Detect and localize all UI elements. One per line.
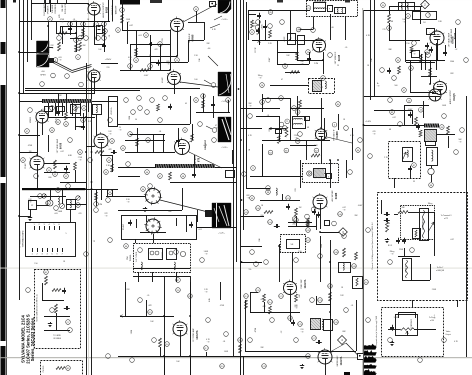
- tube V16 6AU8 bottom: [173, 320, 188, 336]
- value label 39: [209, 297, 211, 302]
- svg-text:330: 330: [300, 61, 303, 63]
- inset callout: [66, 320, 71, 325]
- svg-text:100K: 100K: [442, 105, 447, 107]
- bottom edge tick: [344, 372, 350, 375]
- dashed alignment box: [389, 142, 421, 179]
- svg-text:6T8: 6T8: [198, 157, 201, 162]
- IF terminal board box: [26, 223, 76, 257]
- capacitor: [408, 112, 412, 118]
- wire: [316, 304, 330, 306]
- tube label: [335, 51, 341, 65]
- svg-text:6AU8: 6AU8: [338, 54, 341, 61]
- value label 2: [109, 35, 111, 38]
- wire long right: [363, 10, 365, 375]
- svg-text:→5-26←: →5-26←: [220, 147, 228, 149]
- svg-text:220: 220: [300, 329, 303, 331]
- callout: [250, 196, 255, 201]
- svg-text:of 6BQ7A: of 6BQ7A: [436, 269, 445, 272]
- callout: [56, 188, 61, 193]
- svg-text:.001: .001: [138, 35, 142, 37]
- second dashed box bottom left: [41, 361, 83, 375]
- callout: [25, 129, 30, 134]
- value label 42: [223, 341, 226, 343]
- wire: [330, 300, 332, 316]
- flat box: [413, 12, 437, 20]
- svg-text:47: 47: [215, 125, 217, 127]
- dashed box small: [281, 235, 306, 253]
- svg-text:200: 200: [293, 224, 296, 226]
- small comp column: [416, 124, 422, 137]
- svg-text:470K: 470K: [220, 305, 225, 307]
- callout: [311, 28, 333, 58]
- callout: [381, 3, 386, 8]
- capacitor: [102, 43, 106, 49]
- bottom box label: [375, 316, 378, 346]
- inset wire: [44, 313, 70, 331]
- binding bar segment: [1, 183, 6, 341]
- callout: [238, 338, 243, 343]
- callout: [364, 280, 369, 285]
- fold line vertical: [361, 8, 364, 375]
- yoke photo blob: [218, 117, 231, 142]
- svg-text:LL2: LL2: [42, 109, 45, 111]
- pictorial lead: [49, 48, 53, 61]
- crt connector: [206, 211, 212, 217]
- value label 4: [149, 55, 152, 57]
- inset2 comp: [56, 366, 70, 371]
- svg-text:1M: 1M: [29, 151, 32, 153]
- callout: [81, 22, 86, 27]
- inset arrow: [428, 222, 434, 232]
- callout: [94, 202, 99, 207]
- trimmer caps row: [42, 194, 80, 200]
- resistor: [429, 68, 432, 76]
- label 265V: [262, 24, 264, 30]
- value label 44: [261, 205, 264, 207]
- callout: [47, 168, 52, 173]
- wire: [125, 152, 175, 154]
- wire: [330, 240, 332, 282]
- wire top link: [412, 300, 414, 307]
- inset resistor: [52, 289, 61, 292]
- callout: [412, 41, 431, 58]
- svg-text:470: 470: [78, 213, 81, 215]
- wire: [292, 252, 294, 282]
- label 200: [293, 224, 296, 226]
- inset pot label2: [406, 264, 408, 272]
- inner label: [429, 317, 435, 322]
- sound output dashed box: [303, 164, 339, 183]
- wire: [300, 17, 314, 30]
- label col2: [65, 3, 67, 14]
- corner tick: [13, 0, 16, 3]
- inset2 label: [43, 365, 45, 372]
- wire: [410, 92, 434, 94]
- inset label small: [401, 207, 405, 209]
- svg-text:.01: .01: [159, 131, 162, 133]
- callout: [288, 316, 293, 321]
- wire: [101, 63, 118, 65]
- small box 2: [67, 200, 76, 210]
- bottom dashed box: [382, 308, 444, 357]
- wire: [405, 0, 407, 62]
- svg-text:4.5MC: 4.5MC: [162, 77, 164, 83]
- callout: [306, 238, 311, 243]
- wire double: [25, 89, 200, 91]
- pot small: [353, 277, 363, 289]
- svg-text:6AM8: 6AM8: [335, 131, 339, 139]
- tube V11 2nd video 6T8: [174, 138, 190, 155]
- callout: [204, 346, 209, 351]
- model text line2: [25, 314, 30, 364]
- value label 43: [299, 294, 301, 298]
- svg-text:VERT LIN: VERT LIN: [406, 264, 408, 272]
- svg-text:OF 6BE6: OF 6BE6: [53, 338, 61, 340]
- small box SPKR: [327, 174, 332, 179]
- svg-text:100K: 100K: [224, 351, 229, 353]
- callout: [53, 172, 58, 177]
- wire: [260, 194, 300, 201]
- callout: [176, 288, 181, 293]
- value label 26: [314, 145, 318, 147]
- small box: [324, 320, 333, 331]
- small boxes under coil: [45, 107, 65, 112]
- value label 36: [340, 295, 344, 297]
- svg-text:150K: 150K: [126, 19, 131, 21]
- resistor: [398, 66, 401, 74]
- callout: [148, 64, 153, 69]
- callout: [64, 174, 69, 179]
- coil small: [276, 188, 277, 195]
- svg-text:of T2: of T2: [444, 218, 448, 220]
- callout: [158, 174, 163, 179]
- value label 16: [58, 95, 62, 97]
- label strip: [109, 97, 118, 127]
- tuner label: [136, 251, 138, 262]
- resistor: [245, 300, 248, 309]
- photo blob label: [220, 19, 228, 21]
- callout: [334, 250, 339, 255]
- tube label: [189, 32, 195, 42]
- wire: [241, 108, 280, 110]
- callout: [295, 110, 300, 115]
- svg-text:100K: 100K: [131, 329, 133, 334]
- wire: [125, 316, 174, 318]
- callout: [120, 8, 125, 13]
- wire bus: [86, 63, 88, 375]
- callout: [266, 186, 271, 191]
- capacitor: [291, 320, 295, 326]
- inset pot VOLUME: [420, 209, 429, 241]
- wire: [288, 208, 339, 250]
- tube V5 video IF 6AU8: [312, 37, 326, 52]
- resistor: [355, 252, 358, 260]
- callout: [165, 342, 170, 347]
- svg-text:05: 05: [185, 103, 187, 105]
- resistor: [343, 248, 346, 257]
- svg-text:820: 820: [166, 61, 169, 63]
- inset pot2: [413, 229, 421, 239]
- svg-text:470K: 470K: [28, 145, 33, 147]
- resistor grid: [103, 28, 106, 36]
- svg-text:470: 470: [372, 131, 375, 133]
- callout: [266, 190, 271, 195]
- resistor: [329, 292, 332, 301]
- wire: [19, 135, 40, 137]
- label 250V: [105, 59, 112, 61]
- wire: [406, 60, 437, 62]
- value label 10: [298, 29, 303, 31]
- callout: [107, 158, 112, 163]
- svg-text:PHONO: PHONO: [43, 365, 45, 372]
- resistor: [410, 46, 413, 53]
- diamond test2: [338, 336, 347, 345]
- wire: [177, 31, 179, 56]
- svg-text:47: 47: [55, 119, 57, 121]
- circle component: [428, 168, 434, 174]
- label col: [43, 3, 50, 15]
- align box R: [427, 148, 438, 166]
- callout: [306, 228, 311, 233]
- callout: [144, 33, 149, 38]
- resistor: [140, 69, 149, 72]
- svg-text:NC-3: NC-3: [388, 245, 392, 247]
- wire: [61, 26, 77, 34]
- label 46: [208, 48, 211, 50]
- tube label: [301, 278, 307, 288]
- wire: [19, 21, 110, 23]
- wire: [288, 222, 312, 224]
- wire: [277, 53, 323, 61]
- capacitor: [387, 68, 391, 74]
- wire diagonal: [327, 137, 352, 143]
- binding bar segment: [1, 85, 6, 177]
- arrow lead: [269, 127, 274, 130]
- wire: [270, 85, 308, 87]
- resistor: [420, 54, 423, 62]
- callout: [336, 102, 341, 107]
- svg-text:PHONO JACK: PHONO JACK: [43, 3, 46, 15]
- IF board pins bottom: [31, 248, 63, 256]
- resistor: [191, 134, 194, 142]
- svg-text:.05: .05: [147, 295, 150, 297]
- callout: [279, 294, 284, 299]
- callout: [298, 322, 303, 327]
- wire: [325, 364, 327, 375]
- wire bus: [31, 0, 33, 40]
- svg-text:68: 68: [391, 21, 393, 23]
- callout: [425, 50, 430, 55]
- wire: [250, 144, 302, 177]
- callout: [286, 196, 291, 201]
- wire: [250, 292, 258, 294]
- capacitor: [263, 24, 267, 30]
- svg-text:1Meg: 1Meg: [258, 75, 263, 77]
- blob leads: [208, 16, 222, 66]
- svg-text:150: 150: [406, 43, 409, 45]
- resistor: [111, 164, 114, 172]
- svg-text:560K: 560K: [58, 211, 63, 213]
- inner cap: [390, 325, 394, 331]
- small box: [93, 105, 102, 115]
- callout: [440, 125, 445, 130]
- tube label: [336, 355, 343, 367]
- resistor: [74, 162, 77, 170]
- callout: [292, 207, 316, 221]
- value label 18: [28, 145, 33, 147]
- label: [30, 116, 32, 123]
- svg-text:1W: 1W: [299, 207, 302, 209]
- inset cap: [62, 288, 66, 294]
- capacitor: [81, 124, 85, 130]
- fold line: [0, 357, 472, 358]
- tuner caps: [128, 220, 193, 228]
- callout: [124, 244, 129, 249]
- align box L: [403, 148, 413, 162]
- wire: [290, 10, 306, 12]
- callout: [256, 20, 285, 29]
- vertical label: [62, 3, 64, 11]
- callout: [46, 201, 51, 206]
- wire: [437, 45, 439, 60]
- resistor: [295, 208, 298, 216]
- tube V3 sound IF 6AW8 upper: [170, 17, 184, 32]
- right inset label: [371, 222, 374, 269]
- peaking coil row 2: [155, 164, 215, 168]
- callout: [226, 98, 231, 103]
- callout: [78, 150, 83, 155]
- callout: [283, 64, 288, 69]
- svg-text:.0047: .0047: [269, 58, 271, 63]
- callout: [279, 96, 284, 101]
- wire: [19, 93, 95, 95]
- callout: [321, 76, 326, 81]
- svg-text:33: 33: [413, 181, 415, 183]
- wire: [370, 0, 372, 100]
- callout: [134, 58, 139, 63]
- value label 28: [389, 129, 391, 131]
- callout: [312, 336, 317, 341]
- tuner circle: [180, 251, 185, 256]
- resistor: [299, 100, 302, 108]
- callout: [407, 98, 412, 103]
- callout: [158, 42, 163, 47]
- capacitor: [274, 224, 280, 228]
- capacitor: [286, 204, 290, 210]
- svg-text:TO GRID: TO GRID: [53, 335, 61, 337]
- callout row2: [40, 73, 84, 87]
- svg-text:5: 5: [65, 233, 66, 235]
- tube cathode chain: [190, 282, 192, 310]
- svg-text:680: 680: [48, 177, 51, 179]
- svg-text:.02: .02: [455, 49, 458, 51]
- value label 12: [388, 49, 392, 51]
- svg-text:270: 270: [382, 29, 385, 31]
- wire: [36, 205, 48, 207]
- callout: [256, 206, 261, 211]
- svg-text:BRIGHTNESS: BRIGHTNESS: [423, 218, 425, 230]
- svg-text:SYNC SEP: SYNC SEP: [301, 278, 303, 288]
- crt photo blob: [212, 203, 231, 228]
- small box right of T3: [305, 117, 310, 122]
- callout: [74, 38, 79, 43]
- callout: [73, 106, 78, 111]
- resistor: [296, 52, 299, 60]
- callout: [268, 220, 273, 225]
- svg-text:2.2M: 2.2M: [98, 204, 103, 206]
- wire: [196, 112, 230, 114]
- callout: [94, 22, 99, 27]
- svg-text:INTERLOCK: INTERLOCK: [65, 3, 67, 14]
- crt blob label: [217, 233, 225, 235]
- callout 33: [194, 7, 199, 12]
- svg-text:2.2M: 2.2M: [314, 63, 319, 65]
- tuner vertical labels: [122, 223, 164, 258]
- svg-text:TAKEOFF: TAKEOFF: [115, 5, 118, 15]
- svg-text:.005: .005: [58, 57, 62, 59]
- resistor: [294, 294, 298, 308]
- waveform callout box: [358, 354, 364, 360]
- arrowed lead: [120, 315, 125, 318]
- tube label 6AM8: [334, 129, 339, 141]
- diamond test point: [421, 0, 430, 9]
- callout: [175, 58, 180, 63]
- tick marks top: [44, 0, 67, 4]
- svg-text:AGC KEYER: AGC KEYER: [331, 190, 334, 202]
- callout: [110, 139, 115, 144]
- svg-text:CONTROL: CONTROL: [55, 3, 57, 14]
- callout: [380, 68, 397, 81]
- wire: [389, 23, 420, 41]
- tuner coil2: [174, 262, 175, 270]
- transformer sound out: [310, 318, 323, 330]
- callout: [146, 138, 151, 143]
- inset label4: [436, 267, 445, 272]
- wire: [106, 196, 145, 198]
- wire bus: [23, 0, 25, 94]
- callout: [76, 203, 81, 208]
- svg-text:1500: 1500: [321, 244, 323, 248]
- callout: [295, 139, 300, 144]
- IF transformer T1 coils: [314, 2, 326, 12]
- callout: [188, 294, 193, 299]
- tube V13 audio output 6AQ5: [428, 87, 441, 101]
- photo callout: [204, 80, 216, 87]
- resistor: [169, 172, 172, 180]
- callout: [102, 22, 107, 27]
- svg-text:.0047: .0047: [144, 75, 149, 77]
- value label 11: [314, 63, 319, 65]
- tube V1 audio output 6AQ5: [87, 1, 100, 15]
- wire: [330, 330, 332, 340]
- coil top right: [399, 3, 415, 11]
- tube label: [450, 28, 457, 43]
- inset label2: [53, 335, 61, 340]
- svg-text:.047: .047: [299, 294, 301, 298]
- capacitor: [256, 28, 260, 34]
- wire: [60, 26, 94, 28]
- value label 1: [73, 21, 78, 23]
- svg-text:200: 200: [260, 215, 263, 217]
- svg-text:6AU6: 6AU6: [451, 36, 455, 44]
- callout: [103, 29, 108, 34]
- value label 41: [131, 329, 133, 334]
- callout: [256, 288, 261, 293]
- value label 8: [257, 33, 259, 35]
- value label 47: [366, 35, 371, 37]
- callout: [82, 106, 87, 111]
- inset resistor: [45, 276, 48, 285]
